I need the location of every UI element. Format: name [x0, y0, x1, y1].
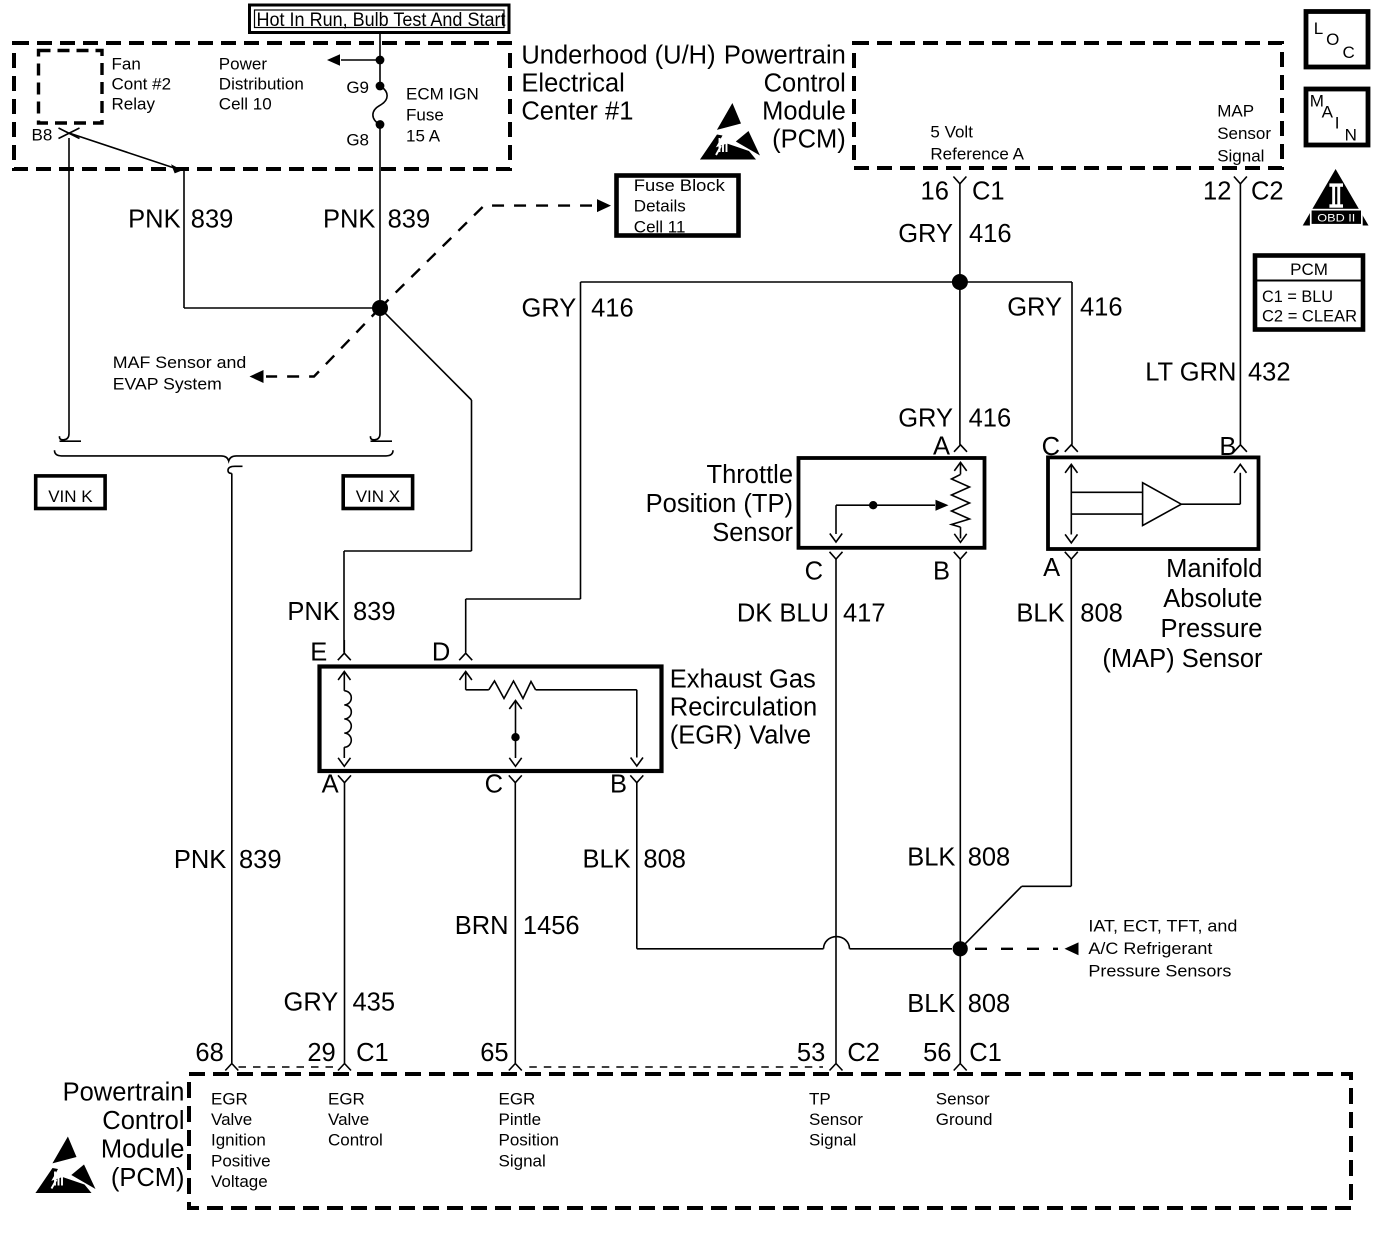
- svg-text:Exhaust Gas: Exhaust Gas: [670, 666, 816, 694]
- svg-text:TP: TP: [809, 1090, 831, 1109]
- svg-text:16: 16: [921, 178, 949, 206]
- svg-text:Fan: Fan: [112, 55, 141, 74]
- svg-text:IAT, ECT, TFT, and: IAT, ECT, TFT, and: [1088, 917, 1237, 936]
- svg-text:416: 416: [969, 220, 1012, 248]
- svg-text:839: 839: [191, 206, 234, 234]
- svg-text:GRY: GRY: [1007, 294, 1062, 322]
- svg-text:12: 12: [1203, 178, 1231, 206]
- svg-text:GRY: GRY: [283, 989, 338, 1017]
- svg-text:C1 = BLU: C1 = BLU: [1262, 287, 1333, 306]
- svg-text:BLK: BLK: [907, 990, 955, 1018]
- svg-text:EGR: EGR: [328, 1090, 365, 1109]
- svg-text:Electrical: Electrical: [521, 69, 624, 97]
- svg-text:Power: Power: [219, 55, 268, 74]
- svg-text:Relay: Relay: [112, 95, 156, 114]
- svg-text:Cell 10: Cell 10: [219, 95, 272, 114]
- svg-text:EVAP System: EVAP System: [113, 375, 222, 394]
- svg-text:Valve: Valve: [211, 1110, 252, 1129]
- svg-text:416: 416: [1080, 294, 1123, 322]
- svg-text:416: 416: [591, 295, 634, 323]
- svg-text:Manifold: Manifold: [1166, 555, 1262, 583]
- svg-text:C: C: [485, 770, 503, 798]
- svg-text:Signal: Signal: [809, 1131, 856, 1150]
- svg-text:C2: C2: [1251, 178, 1284, 206]
- svg-text:839: 839: [353, 598, 396, 626]
- svg-text:PNK: PNK: [287, 598, 339, 626]
- svg-text:PNK: PNK: [174, 846, 226, 874]
- svg-text:Module: Module: [762, 97, 846, 125]
- svg-text:I: I: [1335, 113, 1340, 132]
- svg-text:Sensor: Sensor: [1217, 124, 1271, 143]
- svg-text:417: 417: [843, 600, 886, 628]
- svg-text:56: 56: [923, 1039, 951, 1067]
- svg-text:Fuse Block: Fuse Block: [634, 176, 726, 195]
- svg-text:808: 808: [1080, 600, 1123, 628]
- svg-text:A: A: [933, 433, 950, 461]
- svg-text:DK BLU: DK BLU: [737, 600, 829, 628]
- svg-text:Recirculation: Recirculation: [670, 694, 817, 722]
- svg-text:Fuse: Fuse: [406, 106, 444, 125]
- svg-text:PNK: PNK: [128, 206, 180, 234]
- svg-text:Throttle: Throttle: [707, 461, 793, 489]
- svg-text:Cell 11: Cell 11: [634, 218, 686, 237]
- svg-text:Valve: Valve: [328, 1110, 369, 1129]
- svg-text:N: N: [1345, 126, 1357, 145]
- svg-text:GRY: GRY: [898, 405, 953, 433]
- svg-text:BLK: BLK: [582, 846, 630, 874]
- svg-text:B8: B8: [32, 126, 53, 145]
- svg-text:808: 808: [968, 844, 1011, 872]
- svg-text:68: 68: [195, 1039, 223, 1067]
- svg-text:MAP: MAP: [1217, 102, 1254, 121]
- svg-text:PNK: PNK: [323, 206, 375, 234]
- svg-text:Ground: Ground: [936, 1110, 993, 1129]
- svg-text:Sensor: Sensor: [936, 1090, 990, 1109]
- svg-text:L: L: [1314, 19, 1323, 38]
- svg-text:Pressure Sensors: Pressure Sensors: [1088, 962, 1231, 981]
- svg-text:B: B: [933, 558, 950, 586]
- svg-text:Positive: Positive: [211, 1151, 271, 1170]
- svg-text:Distribution: Distribution: [219, 75, 304, 94]
- svg-text:EGR: EGR: [499, 1090, 536, 1109]
- svg-text:Powertrain: Powertrain: [63, 1079, 185, 1107]
- svg-text:G8: G8: [346, 131, 369, 150]
- svg-text:BLK: BLK: [907, 844, 955, 872]
- svg-text:Signal: Signal: [1217, 147, 1264, 166]
- svg-text:Powertrain: Powertrain: [724, 41, 846, 69]
- svg-text:(EGR) Valve: (EGR) Valve: [670, 722, 811, 750]
- svg-text:Sensor: Sensor: [809, 1110, 863, 1129]
- svg-text:Pressure: Pressure: [1160, 615, 1262, 643]
- svg-text:1456: 1456: [523, 912, 580, 940]
- svg-text:Cont #2: Cont #2: [112, 75, 172, 94]
- svg-text:VIN X: VIN X: [356, 487, 400, 506]
- svg-text:29: 29: [307, 1039, 335, 1067]
- svg-text:Sensor: Sensor: [712, 519, 793, 547]
- svg-text:Ignition: Ignition: [211, 1131, 266, 1150]
- svg-text:435: 435: [353, 989, 396, 1017]
- svg-text:LT GRN: LT GRN: [1145, 359, 1236, 387]
- svg-text:5 Volt: 5 Volt: [930, 123, 973, 142]
- svg-text:Control: Control: [764, 69, 846, 97]
- svg-text:C: C: [1343, 43, 1355, 62]
- svg-text:Position: Position: [499, 1131, 559, 1150]
- svg-text:E: E: [310, 639, 327, 667]
- svg-text:(PCM): (PCM): [111, 1164, 185, 1192]
- svg-text:PCM: PCM: [1290, 260, 1328, 279]
- svg-text:C2: C2: [847, 1039, 880, 1067]
- svg-text:808: 808: [643, 846, 686, 874]
- svg-text:Module: Module: [101, 1136, 185, 1164]
- svg-text:808: 808: [968, 990, 1011, 1018]
- svg-text:Position (TP): Position (TP): [646, 490, 793, 518]
- svg-text:839: 839: [388, 206, 431, 234]
- svg-text:416: 416: [969, 405, 1012, 433]
- svg-text:C1: C1: [972, 178, 1005, 206]
- svg-text:Control: Control: [102, 1107, 184, 1135]
- svg-text:B: B: [610, 770, 627, 798]
- svg-text:839: 839: [239, 846, 282, 874]
- svg-text:Signal: Signal: [499, 1151, 546, 1170]
- svg-text:ECM IGN: ECM IGN: [406, 85, 479, 104]
- svg-text:G9: G9: [346, 78, 369, 97]
- svg-text:53: 53: [797, 1039, 825, 1067]
- svg-text:BRN: BRN: [455, 912, 509, 940]
- svg-text:C2 = CLEAR: C2 = CLEAR: [1262, 307, 1357, 326]
- svg-text:BLK: BLK: [1016, 600, 1064, 628]
- svg-text:EGR: EGR: [211, 1090, 248, 1109]
- svg-text:C1: C1: [356, 1039, 389, 1067]
- svg-text:C1: C1: [969, 1039, 1002, 1067]
- svg-text:65: 65: [480, 1039, 508, 1067]
- svg-text:C: C: [805, 558, 823, 586]
- svg-text:O: O: [1326, 30, 1339, 49]
- svg-text:B: B: [1219, 433, 1236, 461]
- svg-text:A: A: [1043, 554, 1060, 582]
- svg-text:A: A: [322, 770, 339, 798]
- svg-text:Hot In Run, Bulb Test And Star: Hot In Run, Bulb Test And Start: [257, 9, 507, 31]
- svg-text:Details: Details: [634, 197, 686, 216]
- svg-text:OBD II: OBD II: [1317, 212, 1355, 224]
- svg-text:Voltage: Voltage: [211, 1172, 268, 1191]
- svg-text:15 A: 15 A: [406, 126, 441, 145]
- svg-text:Pintle: Pintle: [499, 1110, 542, 1129]
- svg-text:Center #1: Center #1: [521, 97, 633, 125]
- svg-text:(MAP) Sensor: (MAP) Sensor: [1102, 645, 1263, 673]
- svg-text:Underhood (U/H): Underhood (U/H): [521, 41, 715, 69]
- svg-text:GRY: GRY: [521, 295, 576, 323]
- svg-text:Absolute: Absolute: [1163, 585, 1262, 613]
- svg-text:D: D: [432, 639, 450, 667]
- svg-text:432: 432: [1248, 359, 1291, 387]
- svg-text:C: C: [1042, 433, 1060, 461]
- svg-text:A/C Refrigerant: A/C Refrigerant: [1088, 939, 1212, 958]
- svg-text:A: A: [1322, 103, 1334, 122]
- svg-text:VIN K: VIN K: [48, 487, 93, 506]
- svg-text:Control: Control: [328, 1131, 383, 1150]
- svg-text:GRY: GRY: [898, 220, 953, 248]
- svg-text:MAF Sensor and: MAF Sensor and: [113, 353, 247, 372]
- svg-text:Reference A: Reference A: [930, 145, 1024, 164]
- svg-text:(PCM): (PCM): [772, 125, 846, 153]
